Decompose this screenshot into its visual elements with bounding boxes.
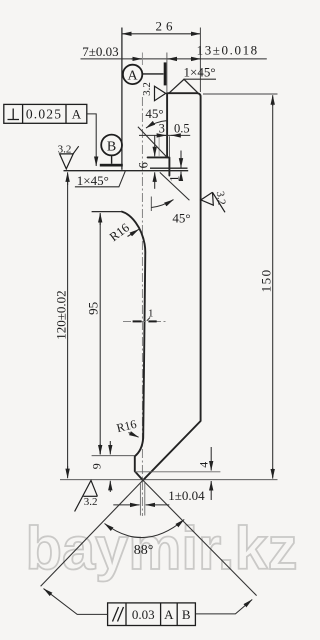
svg-text:1: 1 — [148, 308, 154, 320]
svg-text:1×45°: 1×45° — [77, 173, 109, 188]
svg-text:1±0.04: 1±0.04 — [168, 488, 205, 503]
svg-text:3.2: 3.2 — [214, 190, 228, 205]
svg-text:0.03: 0.03 — [132, 607, 155, 622]
svg-text:95: 95 — [85, 302, 100, 315]
svg-text:0.5: 0.5 — [174, 121, 190, 135]
svg-text:26: 26 — [156, 19, 177, 34]
svg-text:A: A — [164, 607, 174, 622]
svg-text:3: 3 — [159, 121, 165, 135]
svg-text:45°: 45° — [172, 210, 190, 225]
svg-text:3.2: 3.2 — [141, 82, 153, 96]
svg-text:baymir.kz: baymir.kz — [26, 515, 298, 582]
svg-text:4: 4 — [197, 462, 211, 468]
svg-text:1×45°: 1×45° — [183, 65, 215, 80]
svg-text:150: 150 — [258, 268, 273, 292]
svg-text:7±0.03: 7±0.03 — [82, 44, 118, 59]
svg-text:88°: 88° — [134, 543, 154, 558]
svg-text:A: A — [128, 69, 139, 84]
svg-text:120±0.02: 120±0.02 — [53, 290, 68, 339]
svg-text:1: 1 — [167, 175, 181, 181]
svg-text:13±0.018: 13±0.018 — [197, 43, 259, 58]
svg-text:3.2: 3.2 — [84, 496, 98, 508]
svg-text:A: A — [72, 107, 82, 122]
svg-text:9: 9 — [90, 463, 104, 469]
svg-text:45°: 45° — [145, 106, 163, 121]
svg-text:B: B — [182, 607, 191, 622]
svg-text:6: 6 — [137, 162, 151, 168]
svg-text:0.025: 0.025 — [26, 106, 62, 121]
svg-text:B: B — [107, 139, 116, 154]
